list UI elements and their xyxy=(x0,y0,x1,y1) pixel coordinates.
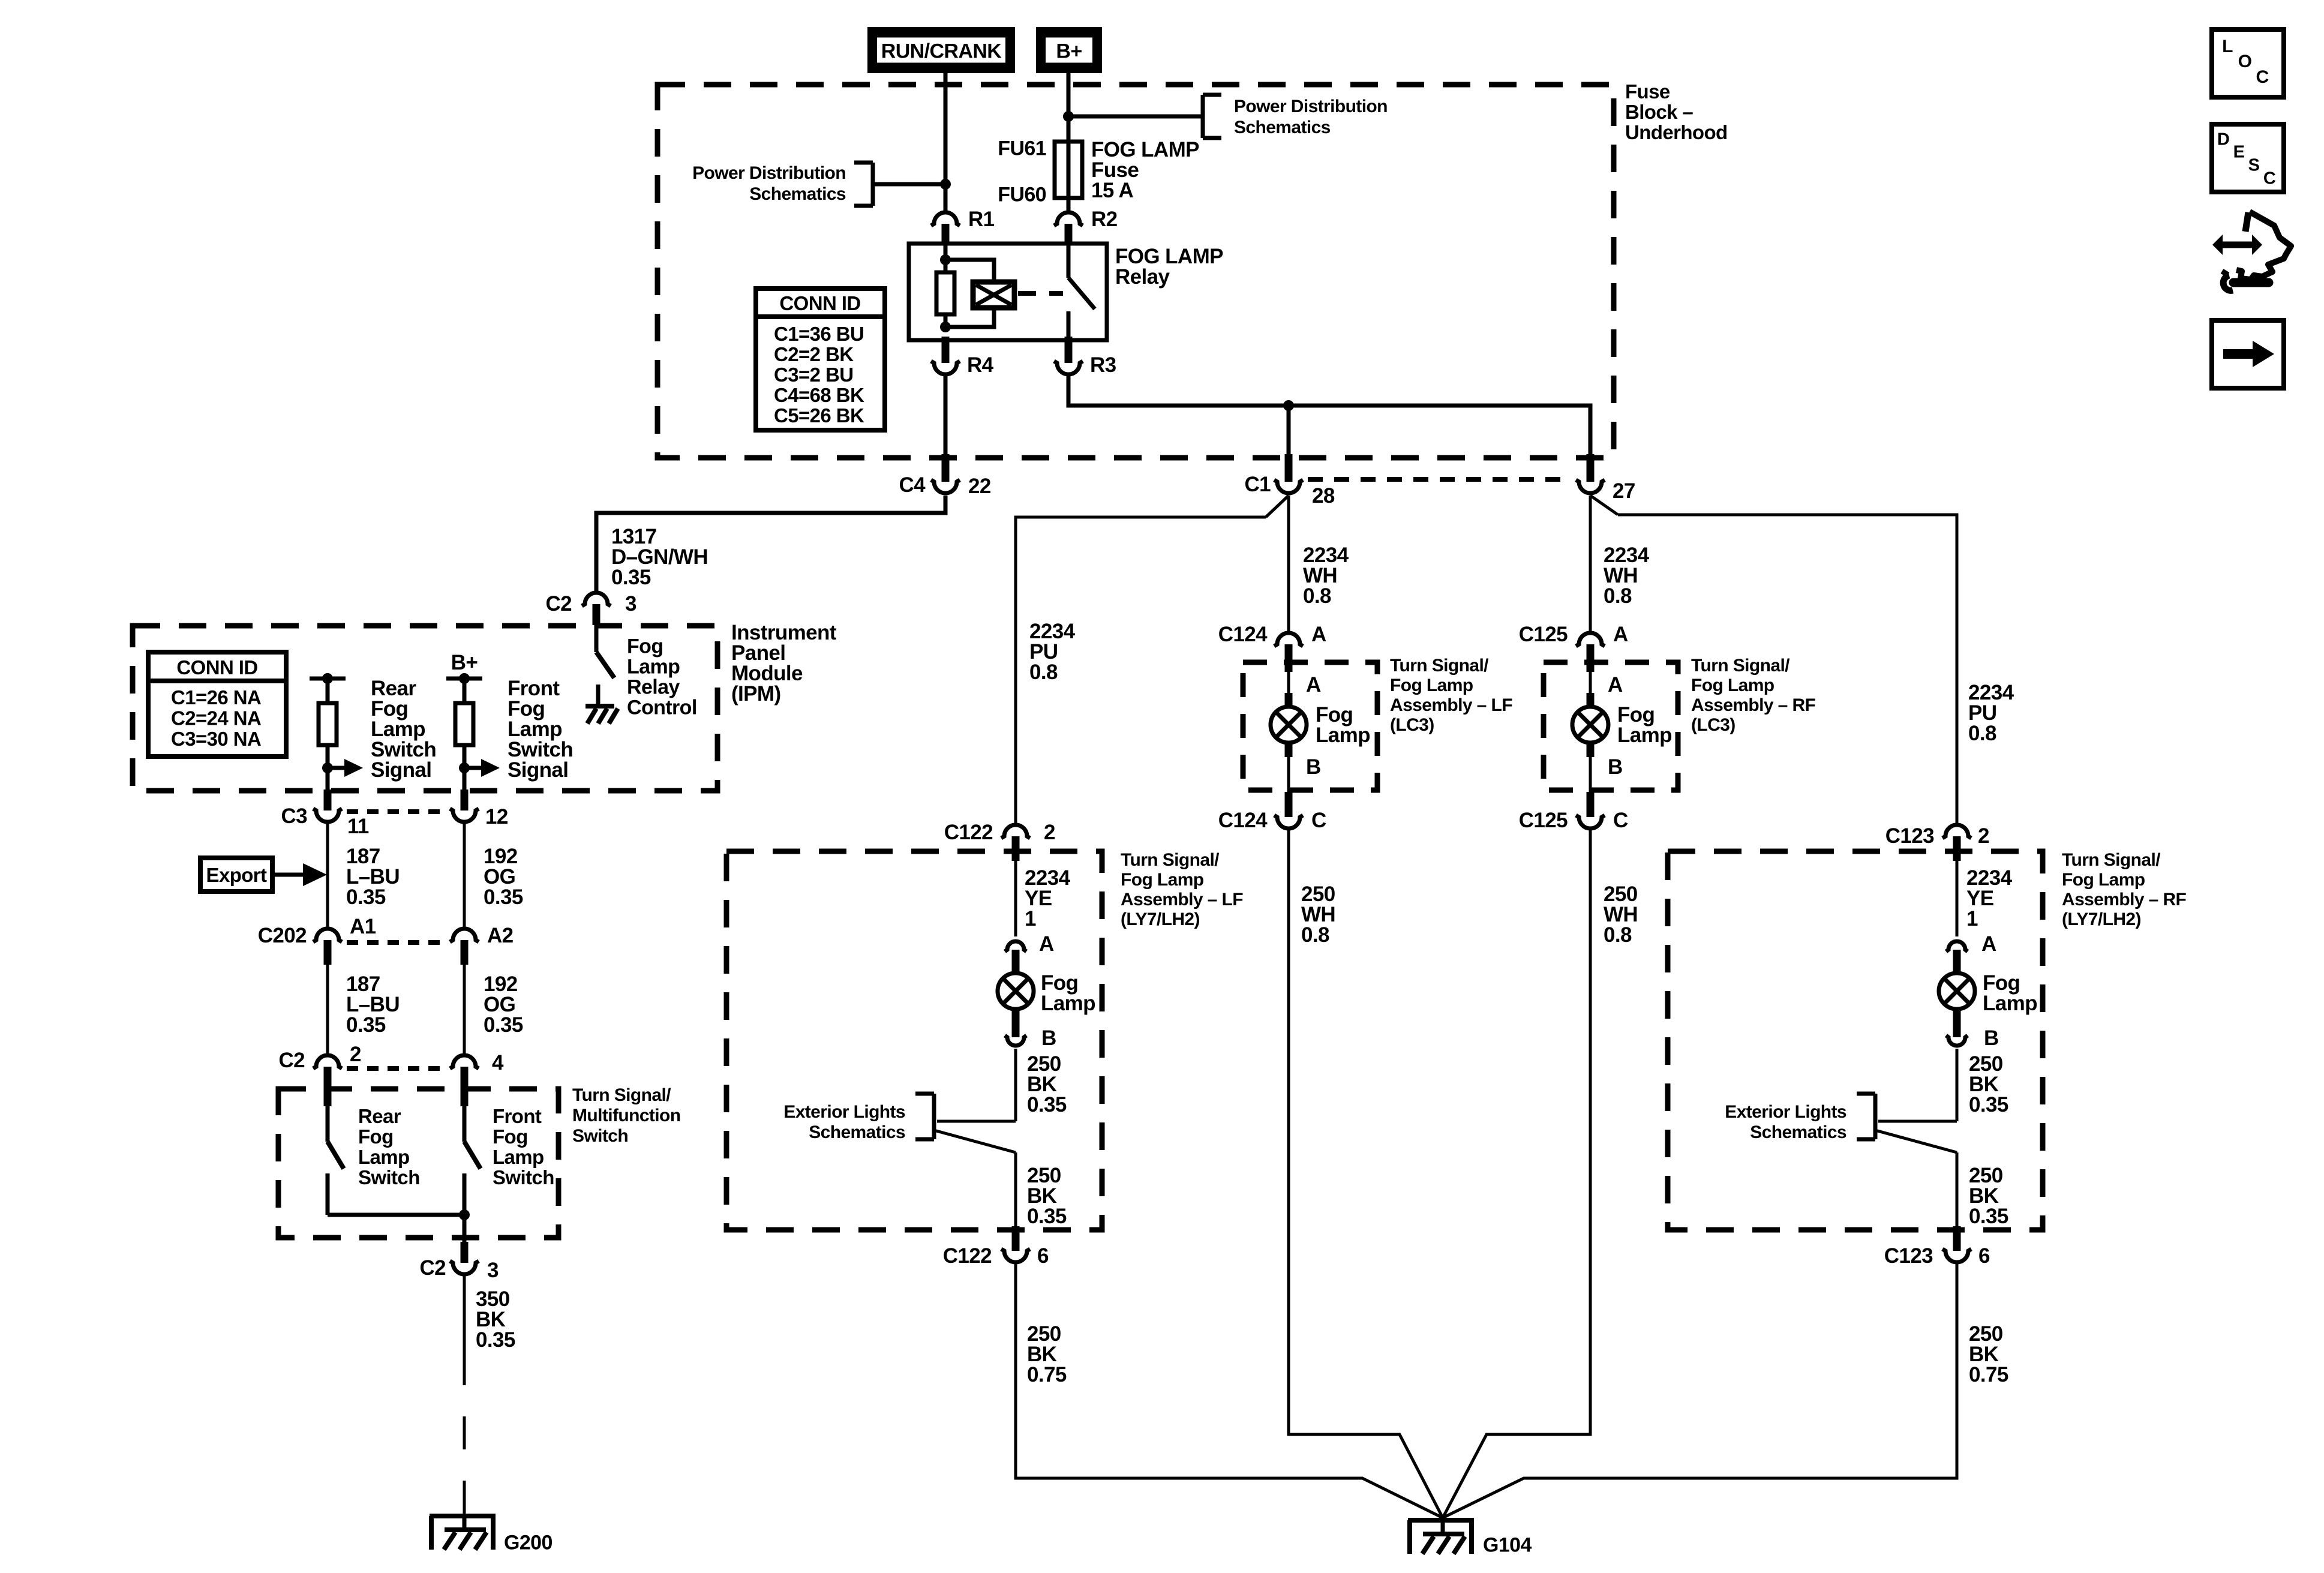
svg-text:C3=30 NA: C3=30 NA xyxy=(171,728,261,750)
connector C122 pin 2 xyxy=(1001,825,1030,861)
label A (RF) xyxy=(1981,932,1996,956)
label Power Distribution Schematics (left) xyxy=(692,163,846,204)
wire 192 OG upper xyxy=(463,824,466,927)
node front signal junction xyxy=(459,763,470,773)
dashed connector link A1-A2 xyxy=(347,940,445,945)
label 6 (C122) xyxy=(1037,1244,1049,1268)
fuse block - underhood dashed box xyxy=(657,85,1614,458)
turn signal fog lamp assembly LF LC3 dashed box xyxy=(1243,662,1377,790)
turn signal multifunction switch dashed box xyxy=(278,1089,559,1238)
label A (C124) xyxy=(1311,623,1326,646)
svg-text:L: L xyxy=(2222,37,2233,56)
dashed connector link 11-12 xyxy=(347,809,445,814)
svg-text:C: C xyxy=(1613,809,1628,832)
svg-text:0.8: 0.8 xyxy=(1029,661,1058,684)
label Fog Lamp Relay Control xyxy=(627,635,697,719)
connector pin A (LF) xyxy=(1005,941,1026,975)
svg-text:1: 1 xyxy=(1025,907,1036,930)
relay coil X-box xyxy=(973,282,1014,308)
connector C3 pin 11 xyxy=(313,789,342,822)
label 4 (switch) xyxy=(492,1051,504,1074)
ground G104 xyxy=(1408,1520,1474,1554)
label A inside (RF LC3) xyxy=(1608,673,1623,697)
svg-text:(LY7/LH2): (LY7/LH2) xyxy=(2062,909,2141,929)
icon LOC box xyxy=(2212,29,2284,97)
svg-text:C122: C122 xyxy=(944,821,993,844)
label 27 xyxy=(1613,479,1635,503)
svg-text:C124: C124 xyxy=(1218,623,1268,646)
label 250 BK 0.35 upper (LF) xyxy=(1027,1052,1067,1116)
label A2 xyxy=(487,924,514,947)
wire 250 WH to G104 (right) xyxy=(1443,830,1590,1518)
svg-text:C4=68 BK: C4=68 BK xyxy=(774,384,864,406)
connector C123 pin 2 xyxy=(1942,825,1971,861)
svg-text:R1: R1 xyxy=(968,208,995,231)
label Turn Signal Multifunction Switch xyxy=(572,1085,680,1146)
svg-text:B+: B+ xyxy=(451,651,478,674)
label Front Fog Lamp Switch xyxy=(493,1105,554,1188)
label 2234 PU 0.8 (right) xyxy=(1968,681,2014,745)
front fog lamp switch blade xyxy=(464,1106,481,1249)
svg-text:C3: C3 xyxy=(281,804,307,828)
label 350 BK 0.35 xyxy=(476,1287,515,1352)
label 11 xyxy=(347,815,369,838)
svg-text:Assembly – LF: Assembly – LF xyxy=(1390,695,1512,715)
label 28 xyxy=(1312,484,1335,508)
label C124 (A) xyxy=(1218,623,1268,646)
svg-text:Fog Lamp: Fog Lamp xyxy=(2062,870,2145,890)
wire 250 BK upper (RF) xyxy=(1956,1049,1959,1121)
wire R4 to C4 xyxy=(944,376,948,458)
svg-text:Turn Signal/: Turn Signal/ xyxy=(1121,850,1220,870)
svg-text:R4: R4 xyxy=(967,353,994,377)
wire 2234 WH to C124 xyxy=(1287,496,1290,632)
wire 192 OG lower xyxy=(463,965,466,1053)
svg-text:O: O xyxy=(2238,52,2252,71)
connector C2 pin 4 xyxy=(450,1055,479,1106)
svg-text:6: 6 xyxy=(1978,1244,1990,1268)
svg-text:Schematics: Schematics xyxy=(1234,118,1331,137)
svg-text:A: A xyxy=(1613,623,1628,646)
svg-text:Schematics: Schematics xyxy=(749,184,846,204)
label Rear Fog Lamp Switch xyxy=(358,1105,420,1188)
label C4 xyxy=(899,473,926,497)
svg-text:0.35: 0.35 xyxy=(484,885,523,909)
label Turn Signal Fog Lamp Assembly LF LY7 xyxy=(1121,850,1243,929)
label 250 BK 0.35 upper (RF) xyxy=(1969,1052,2008,1116)
wire rear resistor down xyxy=(326,745,330,810)
label C2 (switch) xyxy=(278,1049,305,1072)
svg-text:Exterior Lights: Exterior Lights xyxy=(783,1102,905,1122)
svg-text:Fog Lamp: Fog Lamp xyxy=(1390,676,1473,695)
svg-text:C124: C124 xyxy=(1218,809,1268,832)
svg-text:C4: C4 xyxy=(899,473,926,497)
ground internal IPM xyxy=(585,685,618,724)
connector C3 pin 12 xyxy=(450,789,479,822)
wire switch common join xyxy=(328,1209,470,1220)
svg-text:0.8: 0.8 xyxy=(1604,923,1632,947)
svg-text:Lamp: Lamp xyxy=(1041,992,1095,1015)
wire rear feed to resistor xyxy=(326,679,330,703)
fog lamp relay control switch xyxy=(596,625,614,678)
svg-text:C123: C123 xyxy=(1885,824,1934,848)
svg-text:Turn Signal/: Turn Signal/ xyxy=(2062,850,2161,870)
label 2234 PU 0.8 (left) xyxy=(1029,620,1076,684)
svg-text:12: 12 xyxy=(485,805,508,828)
label FU60 xyxy=(998,183,1046,206)
wire junction down to C1 xyxy=(1287,406,1291,458)
svg-text:Front: Front xyxy=(493,1105,542,1127)
svg-text:15 A: 15 A xyxy=(1091,179,1134,202)
instrument panel module dashed box xyxy=(133,626,717,791)
svg-text:Fog: Fog xyxy=(358,1125,394,1148)
svg-text:Signal: Signal xyxy=(508,758,568,782)
connector pin B (LF) xyxy=(1005,1009,1026,1046)
svg-text:6: 6 xyxy=(1037,1244,1049,1268)
label 3 (IPM) xyxy=(625,592,636,616)
label B (RF) xyxy=(1984,1026,1999,1050)
label 2234 YE 1 (RF) xyxy=(1966,866,2013,930)
svg-text:Fog Lamp: Fog Lamp xyxy=(1121,870,1204,890)
connector pin A (RF) xyxy=(1946,941,1968,975)
svg-text:C1=26 NA: C1=26 NA xyxy=(171,686,261,709)
svg-text:C2=2 BK: C2=2 BK xyxy=(774,343,854,365)
front fog feed bar xyxy=(446,673,482,684)
svg-text:Turn Signal/: Turn Signal/ xyxy=(572,1085,671,1105)
svg-text:28: 28 xyxy=(1312,484,1335,508)
svg-text:Fog: Fog xyxy=(627,635,663,658)
svg-text:Schematics: Schematics xyxy=(809,1122,905,1142)
label 3 (out) xyxy=(487,1259,499,1282)
turn signal fog lamp assembly RF LY7 dashed box xyxy=(1668,851,2043,1230)
svg-text:Multifunction: Multifunction xyxy=(572,1106,680,1125)
svg-text:Export: Export xyxy=(206,864,268,886)
label Turn Signal Fog Lamp Assembly RF LC3 xyxy=(1691,656,1816,735)
label C (C124) xyxy=(1311,809,1326,832)
wire and fog lamp bulb (LF LC3) xyxy=(1271,672,1307,795)
wire 250 BK 0.75 to G104 xyxy=(1016,1264,1443,1518)
label 250 BK 0.35 lower (RF) xyxy=(1969,1164,2008,1228)
label A (LF) xyxy=(1039,932,1054,956)
svg-text:C2: C2 xyxy=(278,1049,305,1072)
label Fog Lamp (RF LC3) xyxy=(1617,703,1672,747)
svg-text:Turn Signal/: Turn Signal/ xyxy=(1390,656,1489,676)
label C2 (out) xyxy=(419,1256,446,1280)
relay box xyxy=(909,244,1107,340)
svg-text:(LC3): (LC3) xyxy=(1390,715,1434,735)
label 2 (C123) xyxy=(1978,824,1989,848)
svg-text:C1=36 BU: C1=36 BU xyxy=(774,323,864,345)
connector C2 pin 3 (IPM) xyxy=(582,593,611,625)
svg-text:A2: A2 xyxy=(487,924,514,947)
label 2234 WH 0.8 (C124) xyxy=(1303,544,1349,608)
svg-text:0.8: 0.8 xyxy=(1301,923,1329,947)
svg-text:C: C xyxy=(2263,169,2276,188)
label A inside (LF LC3) xyxy=(1306,673,1321,697)
svg-text:Lamp: Lamp xyxy=(493,1146,544,1168)
label 250 WH 0.8 (right) xyxy=(1604,882,1638,947)
label 6 (C123) xyxy=(1978,1244,1990,1268)
svg-text:0.35: 0.35 xyxy=(346,885,386,909)
wire front feed to resistor xyxy=(463,679,467,703)
label C123 (2) xyxy=(1885,824,1934,848)
label Fog Lamp (LF) xyxy=(1041,971,1095,1015)
label C125 (A) xyxy=(1519,623,1568,646)
exterior lights bracket (LF) xyxy=(915,1094,1016,1152)
svg-text:Exterior Lights: Exterior Lights xyxy=(1725,1102,1846,1122)
relay switch contact lower xyxy=(1067,311,1071,340)
label R3 xyxy=(1090,353,1116,377)
connector C122 pin 6 xyxy=(1001,1226,1030,1262)
connector pin R4 xyxy=(931,337,960,374)
svg-text:A: A xyxy=(1311,623,1326,646)
label C124 (C) xyxy=(1218,809,1268,832)
label R2 xyxy=(1091,208,1118,231)
label 12 xyxy=(485,805,508,828)
node rear signal junction xyxy=(322,763,333,773)
wire 250 BK 0.75 to G104 xyxy=(1443,1264,1957,1518)
svg-text:0.75: 0.75 xyxy=(1969,1363,2008,1386)
svg-text:2: 2 xyxy=(350,1043,361,1066)
svg-text:A: A xyxy=(1608,673,1623,697)
label 250 BK 0.35 lower (LF) xyxy=(1027,1164,1067,1228)
svg-text:B: B xyxy=(1306,755,1321,779)
svg-text:0.35: 0.35 xyxy=(1969,1093,2008,1116)
svg-text:Block –: Block – xyxy=(1625,101,1693,123)
label B inside (RF LC3) xyxy=(1608,755,1623,779)
svg-text:2: 2 xyxy=(1978,824,1989,848)
connector C1 pin 28 xyxy=(1274,454,1303,493)
svg-text:Power Distribution: Power Distribution xyxy=(692,163,846,183)
wire 250 BK lower (LF) xyxy=(1014,1152,1017,1226)
svg-text:R3: R3 xyxy=(1090,353,1116,377)
wire 187 L-BU lower xyxy=(326,965,329,1053)
label Turn Signal Fog Lamp Assembly RF LY7 xyxy=(2062,850,2187,929)
svg-text:0.35: 0.35 xyxy=(346,1013,386,1037)
svg-text:C125: C125 xyxy=(1519,809,1568,832)
svg-text:C202: C202 xyxy=(258,924,307,947)
svg-text:G104: G104 xyxy=(1483,1533,1532,1556)
resistor relay coil xyxy=(936,272,954,314)
svg-text:0.35: 0.35 xyxy=(476,1328,515,1352)
svg-text:Fog Lamp: Fog Lamp xyxy=(1691,676,1774,695)
label 2234 YE 1 (LF) xyxy=(1025,866,1071,930)
fog lamp bulb RF xyxy=(1939,973,1975,1009)
wire and fog lamp bulb (RF LC3) xyxy=(1572,672,1608,795)
relay switch contact upper xyxy=(1067,244,1071,278)
label 187 L-BU 0.35 (upper) xyxy=(346,845,400,909)
conn id table (fuse block) xyxy=(756,289,885,430)
connector pin 27 xyxy=(1576,454,1605,493)
label C122 (2) xyxy=(944,821,993,844)
label 1317 D-GN/WH 0.35 xyxy=(611,525,708,589)
svg-text:Lamp: Lamp xyxy=(358,1146,410,1168)
svg-text:A: A xyxy=(1981,932,1996,956)
svg-text:Assembly – RF: Assembly – RF xyxy=(1691,695,1816,715)
svg-text:A: A xyxy=(1039,932,1054,956)
svg-text:0.75: 0.75 xyxy=(1027,1363,1067,1386)
wire 2234 YE 1 (RF) xyxy=(1956,861,1959,936)
fog lamp bulb LF xyxy=(998,973,1034,1009)
label B (LF) xyxy=(1041,1026,1056,1050)
svg-text:0.35: 0.35 xyxy=(484,1013,523,1037)
svg-text:D: D xyxy=(2217,130,2229,149)
svg-text:Lamp: Lamp xyxy=(627,655,680,678)
connector pin R1 xyxy=(931,212,960,244)
svg-text:(LC3): (LC3) xyxy=(1691,715,1736,735)
wire coil top branch xyxy=(945,260,994,282)
svg-text:0.35: 0.35 xyxy=(1969,1205,2008,1228)
ground G200 xyxy=(430,1516,496,1550)
label Turn Signal Fog Lamp Assembly LF LC3 xyxy=(1390,656,1512,735)
svg-text:0.8: 0.8 xyxy=(1968,722,1996,745)
svg-text:Power Distribution: Power Distribution xyxy=(1234,97,1388,116)
relay actuation dashed link xyxy=(1018,291,1063,296)
wire B+ to fuse and R2 xyxy=(1067,73,1071,211)
label A1 xyxy=(350,915,376,938)
export box and arrow xyxy=(200,858,327,891)
connector C4 pin 22 xyxy=(931,454,960,493)
svg-text:4: 4 xyxy=(492,1051,504,1074)
svg-text:B: B xyxy=(1984,1026,1999,1050)
conn id table (IPM) xyxy=(148,652,286,757)
connector pin R3 xyxy=(1054,337,1083,374)
svg-text:Switch: Switch xyxy=(493,1166,554,1188)
svg-text:Lamp: Lamp xyxy=(1316,724,1370,747)
svg-text:C122: C122 xyxy=(943,1244,992,1268)
svg-text:27: 27 xyxy=(1613,479,1635,503)
svg-text:(LY7/LH2): (LY7/LH2) xyxy=(1121,909,1200,929)
connector C125 pin A xyxy=(1576,633,1605,672)
wire junction to right bracket xyxy=(1068,115,1203,119)
svg-text:Lamp: Lamp xyxy=(1983,992,2037,1015)
rear fog lamp switch blade xyxy=(328,1106,344,1215)
svg-text:B: B xyxy=(1041,1026,1056,1050)
svg-text:C3=2 BU: C3=2 BU xyxy=(774,364,853,386)
label Fuse Block - Underhood xyxy=(1625,80,1728,143)
svg-text:G200: G200 xyxy=(504,1531,553,1554)
label 187 L-BU 0.35 (lower) xyxy=(346,972,400,1037)
label 250 BK 0.75 (right) xyxy=(1969,1322,2008,1386)
wire front resistor down xyxy=(463,745,467,810)
label 192 OG 0.35 (upper) xyxy=(484,845,523,909)
svg-text:C2: C2 xyxy=(545,592,572,616)
label Exterior Lights Schematics (LF) xyxy=(783,1102,905,1142)
exterior lights bracket (RF) xyxy=(1857,1094,1957,1152)
off-page bracket left power distribution xyxy=(854,163,873,206)
connector C124 pin A xyxy=(1274,633,1303,672)
svg-text:A1: A1 xyxy=(350,915,376,938)
connector pin B (RF) xyxy=(1946,1009,1968,1046)
svg-text:CONN ID: CONN ID xyxy=(176,656,257,679)
power feed box B+ xyxy=(1040,31,1098,70)
wire junction to left bracket xyxy=(873,182,945,187)
svg-text:A: A xyxy=(1306,673,1321,697)
label C2 (IPM) xyxy=(545,592,572,616)
label 250 BK 0.75 (left) xyxy=(1027,1322,1067,1386)
svg-text:C: C xyxy=(1311,809,1326,832)
svg-text:C125: C125 xyxy=(1519,623,1568,646)
svg-text:0.35: 0.35 xyxy=(1027,1205,1067,1228)
icon hand with wrench xyxy=(2212,212,2291,290)
label R1 xyxy=(968,208,995,231)
node coil top junction xyxy=(940,254,951,265)
svg-text:C1: C1 xyxy=(1244,473,1271,496)
label C (C125) xyxy=(1613,809,1628,832)
svg-text:Lamp: Lamp xyxy=(1617,724,1672,747)
label FU61 xyxy=(998,137,1046,160)
connector C125 pin C xyxy=(1576,792,1605,828)
wire R3 to pin 27 xyxy=(1068,376,1590,458)
svg-text:Relay: Relay xyxy=(1115,265,1170,289)
label 192 OG 0.35 (lower) xyxy=(484,972,523,1037)
svg-text:Control: Control xyxy=(627,696,697,719)
arrow front switch signal xyxy=(464,759,500,777)
svg-text:Turn Signal/: Turn Signal/ xyxy=(1691,656,1790,676)
label 2234 WH 0.8 (C125) xyxy=(1604,544,1650,608)
svg-text:C5=26 BK: C5=26 BK xyxy=(774,404,864,427)
label G104 xyxy=(1483,1533,1532,1556)
node junction on B+ wire xyxy=(1063,111,1074,122)
svg-text:(IPM): (IPM) xyxy=(731,682,781,706)
wire 250 BK upper (LF) xyxy=(1014,1049,1017,1121)
svg-text:Rear: Rear xyxy=(358,1105,401,1127)
dashed connector link 2-4 xyxy=(347,1066,445,1071)
turn signal fog lamp assembly RF LC3 dashed box xyxy=(1544,662,1678,790)
svg-text:E: E xyxy=(2233,143,2245,162)
svg-text:C123: C123 xyxy=(1884,1244,1933,1268)
label 250 WH 0.8 (left) xyxy=(1301,882,1335,947)
label Power Distribution Schematics (right) xyxy=(1234,97,1388,137)
label 2 (C122) xyxy=(1044,821,1055,844)
label Fog Lamp (LF LC3) xyxy=(1316,703,1370,747)
label C125 (C) xyxy=(1519,809,1568,832)
wire 187 L-BU upper xyxy=(326,824,329,927)
svg-text:FU60: FU60 xyxy=(998,183,1046,206)
turn signal fog lamp assembly LF LY7 dashed box xyxy=(726,851,1102,1230)
wire 250 WH to G104 (left) xyxy=(1289,830,1443,1518)
svg-text:Relay: Relay xyxy=(627,676,680,698)
label C3 xyxy=(281,804,307,828)
dashed connector link C1-27 xyxy=(1308,477,1572,482)
svg-text:RUN/CRANK: RUN/CRANK xyxy=(881,40,1002,62)
power feed box RUN/CRANK xyxy=(872,31,1011,70)
label C122 (6) xyxy=(943,1244,992,1268)
label C123 (6) xyxy=(1884,1244,1933,1268)
svg-text:R2: R2 xyxy=(1091,208,1118,231)
label Rear Fog Lamp Switch Signal xyxy=(371,677,436,782)
svg-text:2: 2 xyxy=(1044,821,1055,844)
svg-text:Schematics: Schematics xyxy=(1750,1122,1846,1142)
label 2 (switch) xyxy=(350,1043,361,1066)
wire 250 BK lower (RF) xyxy=(1956,1152,1959,1226)
icon DESC box xyxy=(2212,124,2284,192)
wire 2234 YE 1 (LF) xyxy=(1014,861,1017,936)
svg-text:1: 1 xyxy=(1966,907,1978,930)
label Exterior Lights Schematics (RF) xyxy=(1725,1102,1846,1142)
wire RUN/CRANK to R1 xyxy=(944,73,948,211)
label Fog Lamp (RF) xyxy=(1983,971,2037,1015)
svg-text:0.35: 0.35 xyxy=(1027,1093,1067,1116)
off-page bracket right power distribution xyxy=(1203,95,1221,138)
svg-text:22: 22 xyxy=(968,475,991,498)
svg-text:C: C xyxy=(2256,67,2268,87)
svg-text:Assembly – LF: Assembly – LF xyxy=(1121,890,1243,909)
svg-text:C2=24 NA: C2=24 NA xyxy=(171,707,261,730)
svg-text:Fog: Fog xyxy=(493,1125,528,1148)
connector C2 pin 2 xyxy=(313,1055,342,1106)
label B+ (front fog feed) xyxy=(451,651,478,674)
